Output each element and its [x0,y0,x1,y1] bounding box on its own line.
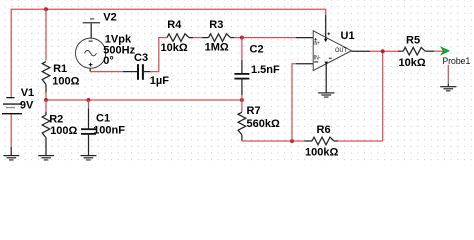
node B: junction dot R1/R2/rail [44,98,48,102]
wire: R1 top stub [45,9,47,60]
resistor R3 [205,19,234,54]
svg-text:1.5nF: 1.5nF [251,64,280,76]
resistor R5 [398,35,434,69]
svg-text:9V: 9V [20,99,34,111]
svg-text:560kΩ: 560kΩ [247,118,280,130]
svg-text:C1: C1 [96,112,110,124]
svg-text:1µF: 1µF [150,75,169,87]
wire: battery bottom to ground [10,115,12,156]
wire: V2 bottom to C3 [90,71,137,73]
capacitor C2 [234,38,280,100]
wire: top rail from battery to op-amp VS+ [11,9,326,97]
ac source V2 [76,11,136,71]
resistor R6 [304,124,338,159]
capacitor C3 [134,52,169,87]
svg-text:Probe1: Probe1 [442,56,470,66]
probe Probe1 (green arrow) [441,47,470,66]
resistor R4 [161,19,194,54]
wire: op-amp output [352,50,399,52]
wire: R3 to op-amp IN+ [234,37,313,39]
svg-text:10kΩ: 10kΩ [161,42,188,54]
resistor R1 [42,62,79,93]
svg-text:V1: V1 [21,87,34,99]
svg-text:100Ω: 100Ω [50,125,77,137]
wire: R1 bottom to mid rail [45,92,47,100]
resistor R2 [42,100,77,155]
svg-text:R7: R7 [247,105,261,117]
node E: junction dot R3/C2/IN+ [240,36,244,40]
wire: IN- riser [292,64,313,141]
svg-text:0°: 0° [103,55,114,67]
node D: junction dot C2/R7/rail [240,98,244,102]
svg-text:R2: R2 [49,113,63,125]
svg-text:100kΩ: 100kΩ [305,147,338,159]
capacitor C1 [81,100,125,155]
resistor R7 [238,100,280,141]
svg-text:IN-: IN- [314,55,321,61]
svg-text:C3: C3 [134,52,148,64]
svg-text:1MΩ: 1MΩ [205,42,229,54]
node F: junction dot feedback/IN- [290,139,294,143]
node C: junction dot C1/rail [87,98,91,102]
svg-text:R6: R6 [317,124,331,136]
svg-text:R3: R3 [209,19,223,31]
wire: probe node to ground [447,65,449,87]
svg-text:IN+: IN+ [314,41,321,47]
op-amp VS+ pin [324,15,330,42]
svg-text:10kΩ: 10kΩ [399,57,426,69]
ground under R2 [38,155,54,161]
svg-text:R4: R4 [167,19,182,31]
ground under C1 [81,155,97,161]
wire: R4 to R3 [193,37,209,39]
wire: middle horizontal rail [46,99,242,101]
node G: junction dot output/feedback [381,49,385,53]
svg-text:OUT: OUT [335,48,347,54]
svg-text:R5: R5 [406,35,420,47]
op-amp U1 [313,30,354,71]
svg-text:R1: R1 [53,63,67,75]
wire: R5 to probe node [434,50,448,52]
ground under V1 [3,155,19,161]
svg-text:100Ω: 100Ω [52,76,79,88]
wire: bottom feedback rail [242,51,383,141]
ground under probe [440,86,456,91]
svg-text:C2: C2 [250,44,264,56]
svg-text:100nF: 100nF [93,125,125,137]
svg-text:V2: V2 [103,11,116,23]
battery V1 [2,87,34,115]
ground under op-amp [318,92,334,97]
node A: junction dot top rail / R1 [44,7,48,11]
op-amp VS- pin [324,58,331,93]
svg-text:U1: U1 [341,30,355,42]
wire: C3 right, up to R4 line [144,38,167,72]
